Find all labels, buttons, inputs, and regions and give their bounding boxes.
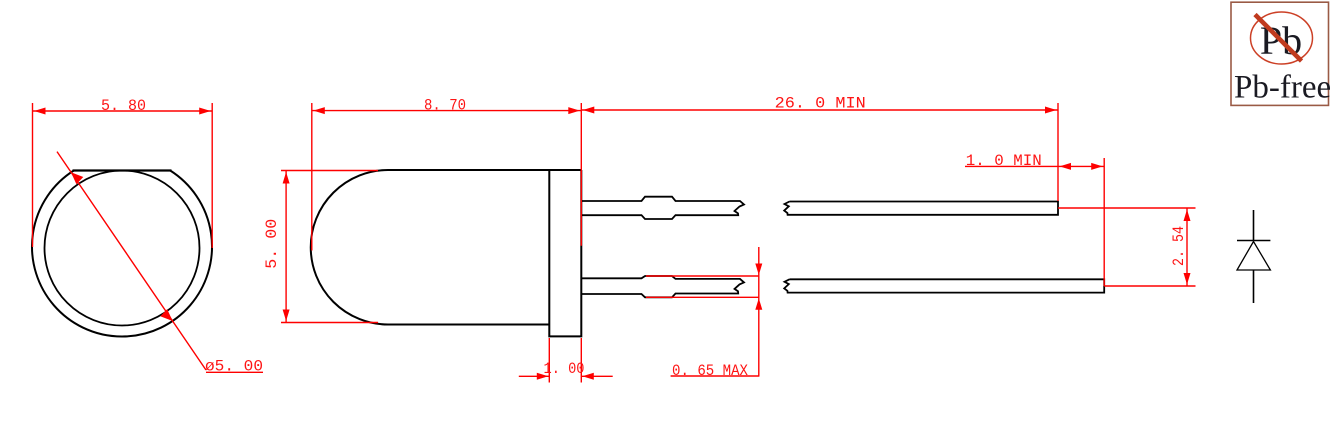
LED body outline with dome: [311, 170, 582, 325]
leader arrow upper: [71, 172, 83, 184]
svg-text:1. 0 MIN: 1. 0 MIN: [966, 152, 1042, 170]
svg-text:2. 54: 2. 54: [1170, 226, 1188, 266]
bottom lead right portion: [784, 279, 1104, 292]
top lead left portion with crimp bump and break: [581, 197, 744, 219]
right extension line: [1103, 158, 1105, 286]
dimension 1.00 line with outside arrows: [519, 375, 613, 377]
dimension 5.00 extension lines: [281, 171, 378, 323]
dimension 5.00 arrows: [283, 172, 290, 321]
svg-text:5. 80: 5. 80: [101, 97, 146, 115]
flat edge chord: [73, 169, 172, 171]
svg-text:8. 70: 8. 70: [424, 97, 466, 115]
underline and dimension line: [965, 165, 1104, 167]
logo box: [1231, 2, 1329, 105]
leader arrow lower: [160, 309, 172, 321]
svg-text:ø5. 00: ø5. 00: [205, 358, 263, 376]
dimension 1.00 extension lines: [549, 338, 581, 383]
dimension 8.70 extension line left: [311, 103, 313, 251]
slash: [1255, 15, 1302, 62]
bottom lead left portion with crimp bump and break: [581, 276, 744, 297]
svg-text:Pb-free: Pb-free: [1234, 70, 1331, 106]
anode triangle: [1237, 242, 1270, 271]
LED flange outer circle (5.80 dia, flat top): [32, 171, 212, 337]
extension lines: [1058, 208, 1196, 286]
dimension line: [581, 109, 1058, 111]
svg-text:26. 0 MIN: 26. 0 MIN: [775, 95, 866, 113]
dimension 8.70 arrows: [313, 107, 580, 114]
svg-text:0. 65 MAX: 0. 65 MAX: [672, 362, 748, 380]
dimension 5.80 line: [33, 110, 213, 112]
LED body inner circle (5.00 dia): [45, 171, 200, 326]
arrows: [1060, 163, 1103, 170]
cathode lead: [1253, 210, 1255, 241]
vertical leader line: [671, 247, 760, 376]
outside arrows: [755, 264, 762, 310]
dimension 5.80 arrows: [34, 108, 211, 115]
arrows: [583, 107, 1057, 114]
flange rectangle: [549, 170, 581, 336]
extension line at flange shared; right extension: [581, 103, 1058, 246]
dimension line: [1186, 208, 1188, 286]
extension lines along crimp edges: [646, 276, 759, 297]
dimension 8.70 line: [312, 110, 582, 112]
dimension 5.80 extension lines: [33, 103, 213, 248]
cathode bar: [1237, 240, 1270, 242]
arrows: [1184, 210, 1191, 285]
dimension 5.00 line: [285, 171, 287, 323]
ellipse: [1251, 12, 1313, 64]
svg-text:5. 00: 5. 00: [263, 219, 281, 269]
top lead right portion: [784, 202, 1058, 215]
svg-text:1. 00: 1. 00: [544, 360, 585, 378]
anode lead: [1253, 271, 1255, 304]
diameter leader line: [57, 152, 263, 373]
